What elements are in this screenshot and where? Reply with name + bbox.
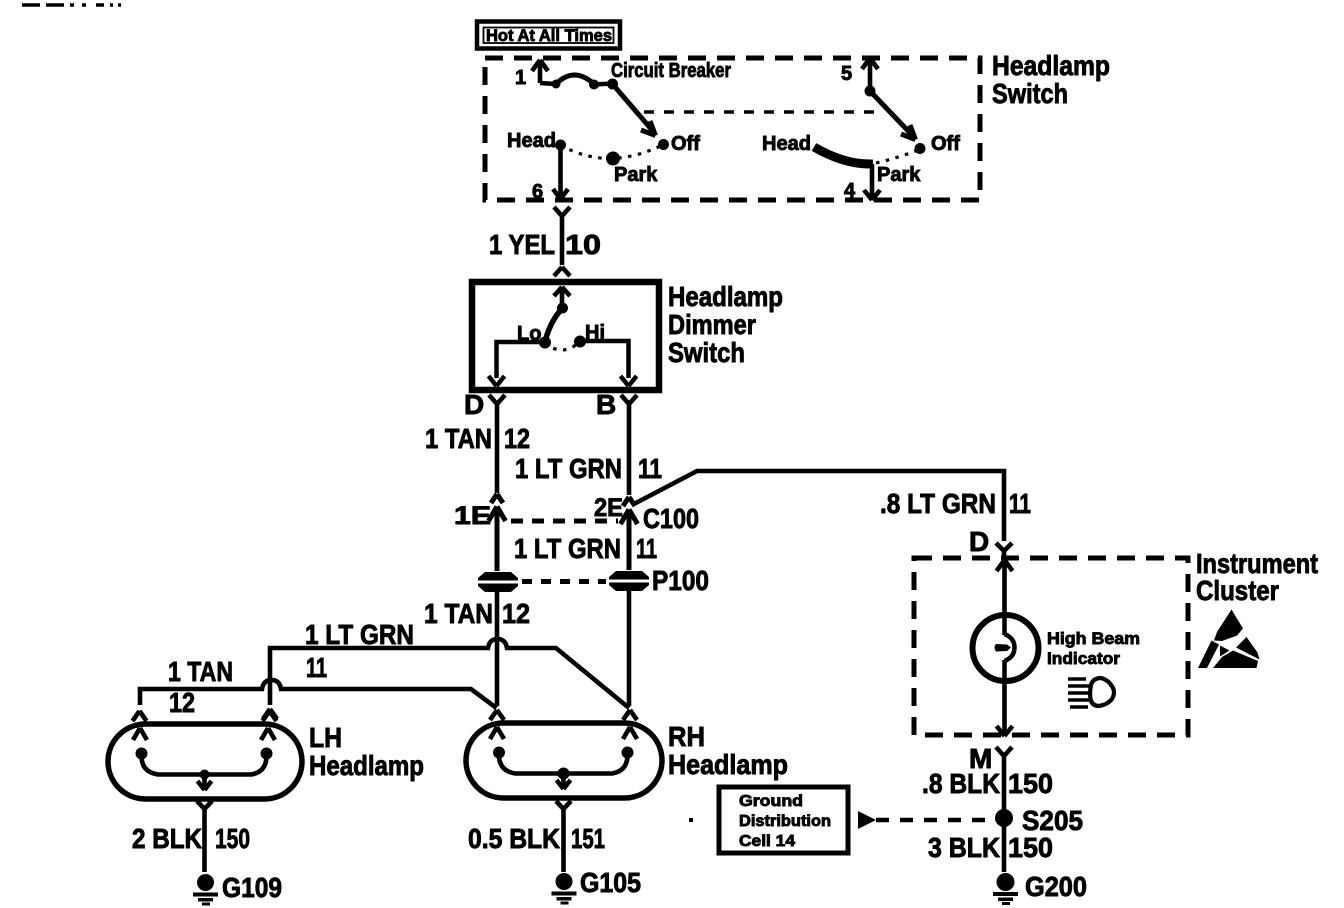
svg-text:1 LT GRN: 1 LT GRN [515, 453, 622, 484]
svg-text:5: 5 [841, 63, 852, 85]
svg-text:10: 10 [565, 229, 601, 260]
RH headlamp label [668, 721, 788, 780]
svg-text:Switch: Switch [992, 78, 1068, 109]
high beam indicator label [1047, 629, 1140, 668]
svg-text:.8 LT GRN: .8 LT GRN [880, 488, 996, 519]
Park contact right (dotted arc) [876, 150, 918, 163]
svg-text:11: 11 [1009, 488, 1031, 519]
ground G200 [993, 873, 1018, 905]
svg-text:Cell 14: Cell 14 [739, 833, 795, 850]
reference arrow [858, 811, 876, 829]
wire label 1 LT GRN 11 [515, 453, 662, 484]
dimmer internal bus to B output [580, 341, 637, 386]
svg-text:RH: RH [668, 721, 705, 752]
svg-text:LH: LH [309, 722, 342, 753]
svg-text:1 LT GRN: 1 LT GRN [514, 533, 621, 564]
high beam indicator lamp [973, 615, 1039, 681]
svg-text:B: B [596, 389, 616, 420]
circuit breaker CB [540, 75, 618, 90]
svg-text:150: 150 [1008, 768, 1053, 799]
dimmer input arrow and wiper [546, 287, 571, 340]
stray scan speck [689, 818, 693, 822]
headlamp switch dashed box [485, 58, 980, 200]
Off contact right [915, 143, 926, 154]
svg-text:D: D [969, 526, 989, 557]
svg-text:2 BLK: 2 BLK [132, 823, 202, 854]
svg-text:11: 11 [636, 533, 657, 564]
high beam indicator entry arrow [997, 560, 1013, 615]
svg-text:Distribution: Distribution [739, 813, 831, 830]
svg-text:1E: 1E [454, 502, 491, 530]
switch gang dashed line [644, 110, 877, 114]
svg-text:Cluster: Cluster [1196, 575, 1279, 606]
ground distribution cell 14 reference box [719, 787, 848, 853]
svg-text:G105: G105 [580, 867, 641, 898]
svg-text:P100: P100 [652, 565, 709, 596]
dimmer internal bus to D output [489, 342, 546, 386]
svg-text:150: 150 [1008, 832, 1053, 863]
LH headlamp pin chevrons [133, 711, 277, 721]
svg-text:C100: C100 [643, 503, 699, 534]
svg-text:.8 BLK: .8 BLK [922, 768, 1000, 799]
instrument cluster dashed box [914, 558, 1188, 735]
svg-text:1 TAN: 1 TAN [424, 598, 493, 629]
svg-text:12: 12 [502, 598, 530, 629]
LH headlamp body [108, 724, 302, 799]
svg-text:6: 6 [532, 181, 543, 203]
wire 1 TAN 12 (P100 to RH headlamp) [495, 592, 500, 706]
svg-text:G109: G109 [222, 872, 282, 903]
wire label .8 BLK 150 [922, 768, 1053, 799]
svg-text:11: 11 [306, 652, 327, 683]
Off contact left [658, 139, 669, 150]
svg-text:0.5 BLK: 0.5 BLK [468, 823, 560, 854]
svg-text:Head: Head [762, 133, 811, 155]
svg-text:150: 150 [215, 823, 250, 854]
svg-text:1 YEL: 1 YEL [489, 229, 555, 260]
headlamp dimmer switch box [472, 282, 659, 390]
svg-text:Headlamp: Headlamp [309, 750, 424, 781]
RH headlamp internals [490, 727, 637, 789]
svg-text:Head: Head [507, 130, 556, 152]
Head contact left [555, 140, 566, 151]
svg-text:Headlamp: Headlamp [668, 749, 788, 780]
P100 dashed connector line [522, 579, 606, 584]
svg-text:Park: Park [614, 164, 658, 186]
headlamp switch title [992, 50, 1110, 109]
ESD sensitive symbol [1198, 610, 1260, 669]
wire label 1 TAN 12 [425, 423, 530, 454]
grommet P100 left [478, 572, 518, 592]
wire 1 TAN 12 (LH to RH low beam link with crossover) [140, 680, 497, 708]
lamp exit wire with arrow [997, 681, 1013, 736]
instrument cluster title [1196, 548, 1318, 606]
wire 1 LT GRN 11 (LH to RH high beam link with crossover) [263, 639, 629, 719]
svg-text:Indicator: Indicator [1047, 649, 1120, 668]
ground G109 [193, 874, 218, 906]
splice S205 [995, 809, 1013, 827]
svg-text:High Beam: High Beam [1047, 629, 1140, 648]
svg-text:Switch: Switch [668, 337, 745, 368]
LH ground lead 2 BLK 150 [197, 801, 212, 872]
RH headlamp body [466, 723, 662, 798]
dimmer switch title [668, 281, 783, 368]
RH ground lead 0.5 BLK 151 [556, 801, 571, 872]
svg-text:Ground: Ground [739, 793, 803, 810]
connector C100 pin 2E [621, 497, 638, 570]
svg-text:11: 11 [638, 453, 662, 484]
Lo contact [539, 337, 551, 349]
dashed reference line to S205 [876, 818, 993, 823]
pin 6 wire with arrow [553, 150, 568, 199]
wire 1 LT GRN (P100 to RH headlamp) [627, 590, 632, 706]
svg-text:Hot At All Times: Hot At All Times [486, 26, 612, 45]
pin 1 arrow [532, 60, 548, 83]
wire label 3 BLK 150 [928, 832, 1053, 863]
svg-text:151: 151 [571, 823, 605, 854]
svg-text:Circuit Breaker: Circuit Breaker [611, 60, 731, 82]
svg-text:Dimmer: Dimmer [668, 309, 756, 340]
LH headlamp label [309, 722, 424, 781]
switch wiper left (to Off) [613, 84, 656, 136]
wire 1 TAN 12 (dimmer D down) [489, 395, 505, 493]
ground G105 [552, 873, 577, 905]
svg-text:1 LT GRN: 1 LT GRN [305, 619, 414, 650]
svg-text:Headlamp: Headlamp [668, 281, 783, 312]
C100 dashed connector line [511, 519, 618, 524]
svg-text:Off: Off [671, 133, 700, 155]
svg-text:Park: Park [877, 164, 921, 186]
svg-text:D: D [464, 389, 484, 420]
Hi contact [574, 336, 586, 348]
headlamp beam icon [1068, 678, 1114, 707]
grommet P100 right [609, 571, 649, 591]
wire 1 LT GRN 11 (dimmer B down) [621, 395, 637, 495]
wire label 1 LT GRN 11 (below C100) [514, 533, 657, 564]
switch wiper right (to Off) [865, 86, 916, 140]
LH headlamp internals [133, 728, 275, 790]
wire label .8 LT GRN 11 [880, 488, 1031, 519]
Park contact left (dotted throw arc) [561, 145, 664, 166]
svg-text:1: 1 [515, 67, 526, 89]
svg-text:1 TAN: 1 TAN [425, 423, 492, 454]
dimmer dotted throw arc [545, 342, 580, 351]
wire .8 LT GRN 11 (2E to instrument cluster) [632, 471, 1012, 556]
connector C100 pin 1E [489, 494, 506, 571]
RH headlamp pin chevrons [490, 710, 637, 720]
stray scan marks top-left [22, 3, 121, 7]
svg-text:3 BLK: 3 BLK [928, 832, 1000, 863]
svg-text:4: 4 [844, 180, 856, 202]
hot-at-all-times feed label box [477, 22, 620, 49]
svg-text:2E: 2E [594, 494, 623, 522]
pin 5 arrow [862, 58, 878, 90]
svg-text:Headlamp: Headlamp [992, 50, 1110, 81]
svg-text:12: 12 [504, 423, 530, 454]
svg-text:12: 12 [169, 687, 195, 718]
svg-text:1 TAN: 1 TAN [168, 656, 233, 687]
svg-text:Off: Off [931, 133, 960, 155]
wire 1 YEL 10 (switch pin 6 to dimmer) [554, 207, 570, 276]
pin 4 wire with arrow [864, 164, 880, 200]
wire label 1 YEL 10 [489, 229, 601, 260]
svg-text:G200: G200 [1025, 871, 1087, 902]
